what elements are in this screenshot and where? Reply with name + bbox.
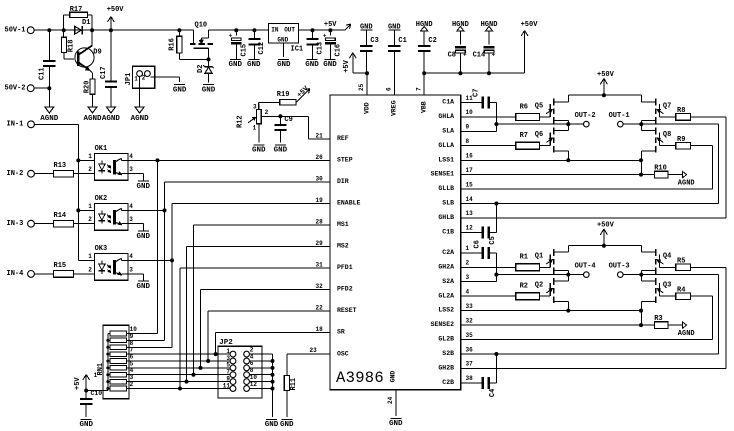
wire OK1 pin3 to GND [128,174,143,181]
svg-text:AGND: AGND [678,330,695,338]
power +50V (input rail) [107,6,125,30]
svg-text:31: 31 [316,262,324,269]
wire rail Q10 to IC1 [209,28,269,32]
wire LSS net (bridge 2) [461,309,643,313]
wire net MS2 [185,240,331,384]
resistor R11 [284,375,298,417]
svg-text:3: 3 [129,216,133,223]
svg-text:C7: C7 [473,89,481,97]
svg-text:50V-2: 50V-2 [5,85,26,93]
capacitor C13 [306,30,324,59]
svg-text:R11: R11 [290,378,298,391]
svg-text:GND: GND [389,420,403,428]
svg-text:GND: GND [137,233,151,241]
svg-text:+5V: +5V [324,21,337,29]
resistor R9 [461,136,713,189]
svg-text:4: 4 [129,153,133,160]
svg-text:GND: GND [277,61,291,69]
svg-text:IC1: IC1 [291,46,304,54]
svg-text:3: 3 [129,166,133,173]
svg-text:1: 1 [253,124,257,131]
ground GND (R12) [252,145,266,155]
ground GND (C9) [274,145,288,155]
svg-text:C12: C12 [258,42,266,55]
svg-text:3: 3 [129,266,133,273]
svg-text:D2: D2 [197,65,205,73]
svg-text:C1B: C1B [442,228,454,235]
svg-text:+50V: +50V [521,21,539,29]
svg-text:C2A: C2A [442,249,454,256]
svg-text:+50V: +50V [597,222,615,230]
capacitor C15 [229,30,249,59]
resistor R6 [461,103,551,120]
resistor R13 [34,162,94,177]
wire main +50V rail left section [34,28,193,32]
svg-text:32: 32 [466,317,474,324]
wire IN-1 to opto anodes [34,124,94,260]
svg-text:GND: GND [137,283,151,291]
wire net ENABLE [128,197,330,347]
svg-text:SLB: SLB [442,200,454,207]
svg-text:Q1: Q1 [535,253,543,261]
diode D1 [75,19,91,34]
resistor R19 [259,91,297,109]
power +5V (regulator output) [324,21,351,30]
svg-text:2: 2 [265,109,269,116]
svg-text:GH2A: GH2A [438,263,454,270]
svg-text:HGND: HGND [416,21,433,29]
svg-text:GHLB: GHLB [438,214,454,221]
svg-text:AGND: AGND [131,115,150,123]
svg-text:IN-3: IN-3 [7,220,24,228]
svg-text:+: + [492,52,496,59]
svg-text:2: 2 [88,216,92,223]
svg-text:14: 14 [466,196,474,203]
svg-text:22: 22 [316,305,324,312]
potentiometer R12 [237,104,281,143]
svg-text:R20: R20 [84,81,92,94]
svg-text:Q3: Q3 [663,282,671,290]
svg-text:RN1: RN1 [97,363,105,376]
terminal OUT-2 [575,112,596,127]
svg-text:24: 24 [387,396,394,404]
ground GND (C12) [247,59,261,69]
svg-text:GND: GND [137,183,151,191]
svg-text:+50V: +50V [597,71,615,79]
svg-text:C17: C17 [100,66,108,79]
svg-text:GL2B: GL2B [438,336,454,343]
svg-text:10: 10 [466,109,474,116]
svg-text:R6: R6 [520,103,528,111]
resistor R5 [461,257,727,368]
svg-text:C2B: C2B [442,379,454,386]
capacitor C1 [385,24,406,96]
svg-text:PFD2: PFD2 [337,286,353,293]
optocoupler OK1 [88,145,133,180]
svg-text:GLLB: GLLB [438,185,454,192]
svg-text:33: 33 [466,303,474,310]
svg-text:R18: R18 [68,40,76,53]
resistor R10 [461,165,683,178]
terminal OUT-4 [575,263,596,278]
svg-text:OSC: OSC [337,350,349,357]
svg-text:R19: R19 [277,91,290,99]
svg-text:REF: REF [337,135,349,142]
svg-text:30: 30 [316,176,324,183]
svg-text:IN-2: IN-2 [7,170,24,178]
svg-text:R15: R15 [54,262,67,270]
svg-text:15: 15 [466,181,474,188]
svg-text:+: + [229,33,233,40]
svg-text:37: 37 [466,361,474,368]
wire net RESET [206,305,330,363]
ground GND (JP1) [173,85,187,95]
svg-text:OK1: OK1 [95,145,108,153]
svg-text:HGND: HGND [452,21,469,29]
svg-text:C8: C8 [448,52,456,60]
svg-text:C6: C6 [474,240,482,248]
capacitor C14 [473,21,498,73]
wire VDD pin 25 [358,73,367,95]
svg-text:GND: GND [79,421,93,429]
svg-text:C11: C11 [39,67,47,80]
IC U1 A3986 [330,95,473,390]
svg-text:A3986: A3986 [336,369,384,387]
ground GND (OK1) [137,181,151,191]
svg-text:C13: C13 [316,42,324,55]
connector JP2 [218,339,273,398]
wire JP1 pin2 to GND [150,77,179,82]
svg-text:+50V: +50V [107,6,125,14]
wire LSS net (bridge 1) [461,158,643,162]
resistor R18 [61,30,75,59]
ground GND (OK2) [137,231,151,241]
wire OK2 pin3 to GND [128,224,143,231]
svg-text:2: 2 [88,266,92,273]
resistor network RN1 [94,325,138,399]
capacitor C10 [80,390,102,417]
svg-text:GND: GND [247,61,261,69]
svg-text:HGND: HGND [481,21,498,29]
svg-text:R1: R1 [520,254,528,262]
svg-text:VBB: VBB [421,101,428,113]
capacitor C16 [323,30,343,59]
svg-text:GND: GND [173,86,187,94]
capacitor C7 [461,97,499,127]
svg-text:R5: R5 [677,257,685,265]
label C6 [474,240,482,248]
transistor Q6 [535,124,571,162]
svg-text:GND: GND [305,61,319,69]
svg-text:IN-4: IN-4 [7,270,24,278]
wire 50V-2 to C11 node [34,86,51,107]
svg-text:GL2A: GL2A [438,292,454,299]
resistor R15 [34,262,94,277]
transistor Q2 [535,275,571,313]
ground GND (R11) [280,419,294,429]
svg-text:R8: R8 [677,107,685,115]
svg-text:2: 2 [466,260,470,267]
svg-text:JP1: JP1 [125,73,133,86]
wire OK3 pin3 to GND [128,274,143,281]
svg-text:C2: C2 [428,37,436,45]
svg-text:SENSE1: SENSE1 [431,171,455,178]
resistor R20 [84,79,96,107]
svg-text:7: 7 [415,87,422,91]
ground AGND (R20) [83,107,102,123]
svg-text:GND: GND [252,147,266,155]
svg-text:6: 6 [385,87,392,91]
svg-text:Q2: Q2 [535,282,543,290]
capacitor C11 [39,30,56,88]
svg-text:C14: C14 [473,52,486,60]
svg-text:STEP: STEP [337,157,353,164]
svg-text:OUT: OUT [284,27,295,34]
svg-text:12: 12 [250,381,258,388]
svg-text:+5V: +5V [343,59,351,72]
wire net PFD1 [178,262,330,391]
label C4 [489,389,497,397]
power +5V (RN1) [74,375,103,393]
wire OUT-1 node [461,122,719,205]
svg-text:R9: R9 [677,136,685,144]
terminal 50V-1 [5,27,35,35]
svg-text:GND: GND [277,36,288,43]
terminal 50V-2 [5,85,35,93]
transistor Q3 [641,275,671,326]
svg-text:25: 25 [358,83,365,91]
svg-text:C10: C10 [91,390,103,397]
wire net SR [214,326,330,356]
svg-text:Q4: Q4 [663,253,671,261]
svg-text:29: 29 [316,240,324,247]
svg-text:50V-1: 50V-1 [5,27,26,35]
svg-text:ENABLE: ENABLE [337,200,361,207]
optocoupler OK2 [88,195,133,230]
transistor Q8 [641,124,671,175]
ground GND (C10) [79,419,93,429]
svg-text:SR: SR [337,329,345,336]
ground AGND (50V-2) [40,107,59,123]
svg-text:VREG: VREG [391,100,398,116]
wire JP2 even pins to GND [271,354,275,417]
svg-text:R16: R16 [169,38,177,51]
svg-text:1: 1 [88,153,92,160]
ground GND (IC) [389,418,403,428]
capacitor C8 [448,21,469,73]
svg-text:C1A: C1A [442,99,454,106]
svg-text:RESET: RESET [337,307,357,314]
svg-text:+: + [463,52,467,59]
svg-text:Q8: Q8 [663,131,671,139]
svg-text:DIR: DIR [337,178,349,185]
svg-text:38: 38 [466,375,474,382]
capacitor C9 [274,114,292,142]
capacitor C17 [100,30,117,107]
resistor R17 [64,6,92,30]
svg-text:VDD: VDD [363,102,370,114]
ground GND (IC1) [277,59,291,69]
jumper JP1 [125,66,155,88]
svg-text:SLA: SLA [442,127,454,134]
wire rail IC1 out to +5V [299,28,345,32]
svg-text:9: 9 [466,124,470,131]
svg-text:GND: GND [229,61,243,69]
wire net DIR [128,176,330,341]
svg-text:D9: D9 [93,49,101,57]
wire IC GND pin [387,390,396,417]
wire net STEP [128,154,330,333]
svg-text:17: 17 [466,167,474,174]
capacitor C2 [415,21,436,95]
ground AGND (R3) [678,322,695,338]
ground AGND (JP1) [131,107,150,123]
wire net PFD2 [199,283,331,370]
svg-text:S2B: S2B [442,350,454,357]
power +50V (bridge 2) [568,222,641,248]
wire net REF [280,116,330,139]
svg-text:R12: R12 [237,115,245,128]
svg-text:R17: R17 [70,6,83,14]
svg-text:C15: C15 [241,44,249,57]
wire OUT-4 node [461,275,584,282]
terminal IN-2 [7,170,35,178]
terminal OUT-3 [609,263,630,278]
svg-text:26: 26 [316,154,324,161]
terminal IN-3 [7,220,35,228]
wire VBB bus [422,71,524,75]
svg-text:+: + [323,33,327,40]
resistor R8 [461,107,727,218]
svg-text:1: 1 [88,203,92,210]
svg-text:R10: R10 [654,165,667,173]
svg-text:LSS2: LSS2 [438,307,454,314]
transistor D9 [75,30,102,79]
svg-text:1: 1 [94,372,98,379]
svg-text:8: 8 [466,138,470,145]
resistor R3 [461,315,683,328]
svg-text:Q7: Q7 [663,102,671,110]
svg-text:AGND: AGND [678,179,695,187]
svg-text:GND: GND [323,61,337,69]
svg-text:Q6: Q6 [535,131,543,139]
svg-text:3: 3 [466,274,470,281]
power +5V (VDD) [343,53,369,75]
svg-text:AGND: AGND [102,115,121,123]
capacitor C6 [461,247,499,277]
svg-text:12: 12 [466,225,474,232]
svg-text:GND: GND [202,86,216,94]
svg-text:+5V: +5V [74,377,82,390]
svg-text:GND: GND [265,421,279,429]
optocoupler OK3 [88,245,133,280]
wire net MS1 [192,219,331,377]
svg-text:R3: R3 [654,315,662,323]
resistor R14 [34,212,94,227]
resistor R1 [461,254,551,271]
svg-text:23: 23 [310,347,318,354]
svg-text:GLLA: GLLA [438,142,454,149]
transistor Q1 [535,246,571,277]
svg-text:3: 3 [253,104,257,111]
svg-text:2: 2 [88,166,92,173]
terminal OUT-1 [609,112,630,127]
svg-text:Q10: Q10 [195,22,208,30]
transistor Q7 [641,95,671,124]
svg-text:11: 11 [223,382,231,389]
svg-text:MS1: MS1 [337,221,349,228]
regulator IC1 [269,24,304,58]
svg-text:32: 32 [316,283,324,290]
wire OUT-3 node [461,273,719,356]
svg-text:MS2: MS2 [337,243,349,250]
terminal IN-1 [7,120,35,128]
wire JP1 pin1 down [139,77,141,108]
svg-text:C5: C5 [489,236,497,244]
svg-text:D1: D1 [82,19,90,27]
ground GND (D2) [202,85,216,95]
power +5V (R19) [296,84,311,102]
svg-text:LSS1: LSS1 [438,156,454,163]
ground GND (C13) [305,59,319,69]
ground GND (JP2) [265,419,279,429]
svg-text:SENSE2: SENSE2 [431,321,455,328]
svg-text:OUT-1: OUT-1 [609,112,630,120]
svg-text:OK2: OK2 [95,195,108,203]
capacitor C4 [461,354,497,389]
svg-text:PFD1: PFD1 [337,264,353,271]
svg-text:GHLA: GHLA [438,113,454,120]
svg-text:R2: R2 [520,283,528,291]
svg-text:R4: R4 [677,286,685,294]
ground AGND (C17) [102,107,121,123]
svg-text:GND: GND [274,147,288,155]
svg-text:19: 19 [316,197,324,204]
svg-text:Q5: Q5 [535,102,543,110]
svg-text:36: 36 [466,346,474,353]
label C7 [473,89,481,97]
wire OUT-2 node [461,124,584,131]
svg-text:1: 1 [134,76,138,83]
svg-text:35: 35 [466,332,474,339]
svg-text:OUT-2: OUT-2 [575,112,596,120]
svg-text:IN: IN [271,27,279,34]
resistor R16 [169,30,209,59]
resistor R7 [461,132,551,149]
terminal IN-4 [7,270,35,278]
svg-text:OUT-4: OUT-4 [575,263,596,271]
transistor Q10 [190,22,213,62]
svg-text:R14: R14 [54,212,67,220]
svg-text:13: 13 [466,210,474,217]
svg-text:C9: C9 [284,116,292,124]
svg-text:C3: C3 [370,37,378,45]
label C5 [489,236,497,244]
svg-text:28: 28 [316,219,324,226]
power +50V (VBB) [521,21,539,73]
power +50V (bridge 1) [568,71,641,97]
svg-text:16: 16 [466,153,474,160]
svg-text:GND: GND [390,371,397,383]
svg-text:C16: C16 [335,44,343,57]
transistor Q5 [535,95,571,126]
ground GND (OK3) [137,281,151,291]
svg-text:4: 4 [129,253,133,260]
svg-text:IN-1: IN-1 [7,120,24,128]
capacitor C3 [360,24,379,74]
resistor R2 [461,283,551,300]
ground GND (C15) [229,59,243,69]
